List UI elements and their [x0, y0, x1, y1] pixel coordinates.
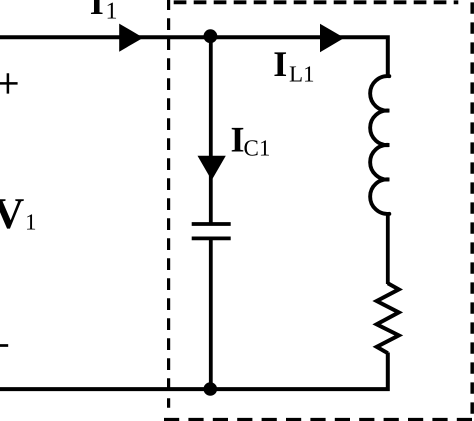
plus sign (voltage polarity)	[0, 73, 18, 93]
wire: capacitor branch lower segment	[209, 238, 213, 389]
node: bottom junction	[204, 382, 218, 396]
wire: bottom conductor from resistor to left edge	[0, 353, 388, 390]
wire: capacitor branch upper segment	[209, 37, 213, 223]
minus sign (voltage polarity)	[0, 344, 8, 347]
svg-text:I: I	[273, 44, 287, 84]
svg-text:I: I	[90, 0, 104, 22]
dashed section boundary: left edge	[167, 0, 170, 408]
resistor R1	[377, 283, 399, 353]
inductor L1	[370, 76, 389, 214]
capacitor C1 bottom plate	[192, 236, 231, 240]
current arrow IC1	[198, 156, 226, 181]
current arrow IL1	[320, 24, 344, 52]
wire: segment between inductor and resistor	[386, 213, 390, 285]
svg-text:1: 1	[106, 0, 118, 24]
svg-text:I: I	[231, 119, 245, 159]
wire: top conductor from left edge to right branch corner	[0, 37, 388, 75]
svg-text:C1: C1	[244, 136, 271, 161]
svg-text:L1: L1	[289, 61, 315, 86]
dashed section boundary: bottom edge	[164, 418, 474, 421]
current arrow I1	[119, 24, 143, 52]
node: top junction	[204, 29, 218, 43]
dashed section boundary: right edge	[470, 2, 474, 421]
svg-text:1: 1	[25, 210, 37, 235]
capacitor C1 top plate	[192, 222, 231, 226]
dashed section boundary: top edge	[174, 0, 459, 4]
svg-text:V: V	[0, 189, 25, 238]
